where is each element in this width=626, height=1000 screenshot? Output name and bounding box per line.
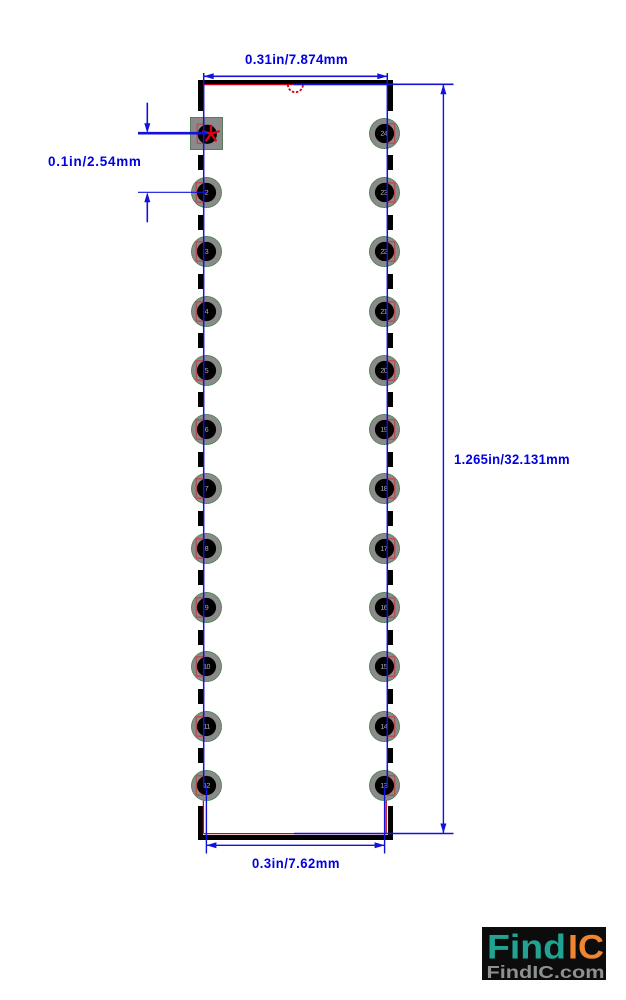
svg-text:Find: Find bbox=[487, 929, 566, 967]
svg-text:FindIC.com: FindIC.com bbox=[487, 962, 605, 980]
svg-text:IC: IC bbox=[568, 929, 604, 967]
